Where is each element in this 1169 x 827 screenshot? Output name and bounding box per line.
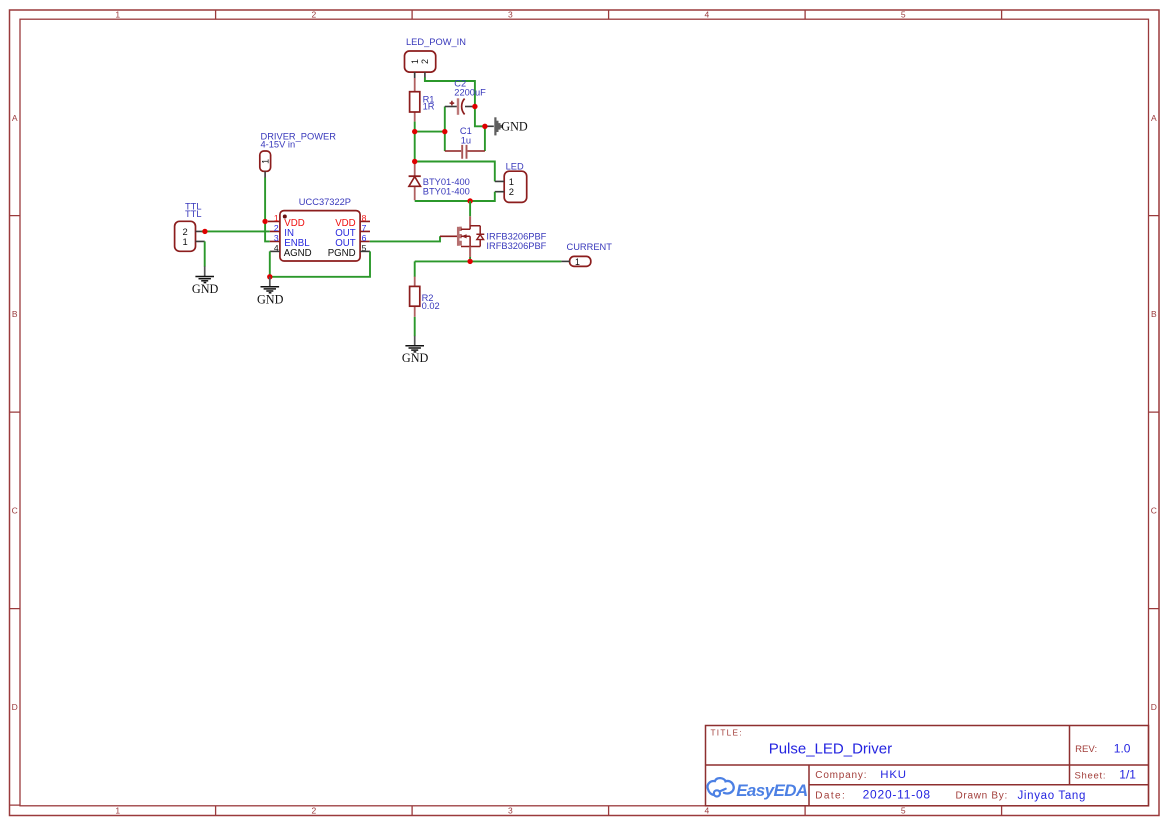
capacitor C1 1u (445, 126, 485, 159)
svg-text:LED_POW_IN: LED_POW_IN (406, 37, 466, 47)
ground GND flag right-pointing at C2 (485, 117, 528, 135)
node junction Q1 source (467, 259, 472, 264)
svg-text:GND: GND (192, 282, 219, 296)
svg-text:1.0: 1.0 (1114, 741, 1131, 755)
connector TTL (175, 201, 205, 251)
svg-text:Company:: Company: (815, 770, 867, 781)
connector CURRENT (561, 242, 612, 267)
svg-text:B: B (12, 309, 18, 319)
svg-text:2: 2 (312, 806, 317, 816)
svg-text:A: A (12, 113, 18, 123)
svg-text:1R: 1R (423, 102, 435, 112)
wire R1 node to C branch (415, 131, 445, 133)
svg-text:Date:: Date: (815, 790, 846, 801)
wire C2 left down to C1 left (444, 107, 446, 152)
wire current sense horizontal (415, 260, 562, 262)
node junction MOSFET drain net (467, 198, 472, 203)
wire DRIVER_POWER to U1 VDD and ENBL (265, 178, 270, 242)
svg-text:AGND: AGND (284, 248, 312, 259)
svg-text:7: 7 (362, 223, 367, 233)
transistor Q1 IRFB3206PBF (440, 216, 547, 257)
svg-text:2: 2 (312, 9, 317, 19)
connector DRIVER_POWER (260, 131, 336, 178)
wire TTL pin1 down (204, 241, 206, 266)
node junction R1/C2C1/diode (412, 129, 417, 134)
svg-text:5: 5 (901, 806, 906, 816)
ground GND under U1 (257, 277, 284, 307)
svg-text:IRFB3206PBF: IRFB3206PBF (486, 231, 546, 241)
svg-text:2: 2 (420, 59, 430, 64)
svg-text:C: C (1151, 505, 1157, 515)
ground GND under TTL (192, 266, 219, 296)
node junction AGND (267, 274, 272, 279)
wire R1 bottom to diode node (414, 122, 416, 164)
svg-text:2: 2 (509, 186, 514, 197)
svg-text:BTY01-400: BTY01-400 (423, 187, 470, 197)
svg-text:A: A (1151, 113, 1157, 123)
svg-text:UCC37322P: UCC37322P (299, 197, 351, 207)
node junction C2 right (472, 104, 477, 109)
svg-text:Drawn By:: Drawn By: (956, 790, 1008, 801)
svg-text:2: 2 (274, 223, 279, 233)
ground GND under R2 (402, 336, 429, 365)
svg-text:4: 4 (705, 806, 710, 816)
svg-text:1: 1 (260, 159, 270, 164)
svg-text:IRFB3206PBF: IRFB3206PBF (486, 241, 546, 251)
svg-text:PGND: PGND (328, 248, 356, 259)
wire down to R2 (414, 261, 416, 277)
svg-text:3: 3 (508, 9, 513, 19)
IC U1 UCC37322P gate driver (268, 197, 370, 261)
svg-text:Sheet:: Sheet: (1075, 771, 1107, 782)
svg-text:GND: GND (257, 292, 284, 306)
svg-text:C: C (12, 505, 18, 515)
wire C2 right to GND branch (475, 107, 485, 127)
svg-text:Pulse_LED_Driver: Pulse_LED_Driver (769, 741, 892, 758)
svg-text:3: 3 (274, 233, 279, 243)
connector J1 LED_POW_IN (405, 37, 466, 78)
svg-text:1: 1 (183, 236, 188, 247)
svg-text:Jinyao Tang: Jinyao Tang (1018, 790, 1087, 802)
svg-text:1: 1 (410, 59, 420, 64)
wire U1 AGND PGND loop (270, 251, 370, 276)
svg-text:1u: 1u (461, 136, 471, 146)
wire U1 OUT to Q1 gate (370, 236, 440, 241)
capacitor C2 2200uF polarized (445, 78, 486, 115)
svg-text:GND: GND (402, 351, 429, 365)
title block (706, 726, 1149, 806)
wire Q1 source to current net (469, 257, 471, 261)
svg-text:1: 1 (115, 9, 120, 19)
svg-text:2200uF: 2200uF (454, 87, 486, 97)
svg-text:EasyEDA: EasyEDA (736, 781, 808, 800)
svg-text:GND: GND (501, 120, 528, 134)
diode D1 BTY01-400 (409, 163, 470, 200)
svg-text:CURRENT: CURRENT (567, 242, 613, 252)
resistor R1 (410, 72, 435, 122)
node junction diode top (412, 159, 417, 164)
svg-text:4-15V in: 4-15V in (261, 140, 296, 150)
svg-text:2020-11-08: 2020-11-08 (863, 788, 931, 802)
svg-text:1: 1 (274, 213, 279, 223)
svg-text:TTL: TTL (185, 209, 202, 219)
svg-text:B: B (1151, 309, 1157, 319)
wire top loop diode to LED pin1 (415, 162, 495, 182)
svg-text:1/1: 1/1 (1119, 768, 1136, 782)
svg-text:1: 1 (575, 257, 580, 267)
node junction GND branch (482, 124, 487, 129)
wire drain (469, 201, 471, 216)
resistor R2 0.02 (410, 277, 440, 317)
connector LED (495, 162, 527, 203)
svg-text:0.02: 0.02 (422, 301, 440, 311)
svg-text:8: 8 (362, 213, 367, 223)
svg-text:4: 4 (274, 243, 279, 253)
svg-text:1: 1 (115, 806, 120, 816)
wire LED_POW_IN pin2 to C2 top (425, 77, 475, 106)
wire bottom loop LED pin2 to diode anode (415, 192, 495, 201)
wire R2 to GND (414, 317, 416, 336)
EasyEDA logo (708, 778, 808, 800)
svg-text:REV:: REV: (1075, 744, 1097, 755)
node junction C branch left (442, 129, 447, 134)
svg-text:5: 5 (901, 9, 906, 19)
svg-text:TITLE:: TITLE: (711, 728, 743, 737)
svg-text:4: 4 (705, 9, 710, 19)
node junction TTL pin2 (202, 229, 207, 234)
wire TTL pin2 to U1 IN (202, 230, 270, 232)
svg-text:D: D (1151, 702, 1157, 712)
node junction U1 VDD (262, 219, 267, 224)
svg-text:D: D (12, 702, 18, 712)
svg-text:5: 5 (362, 243, 367, 253)
svg-text:6: 6 (362, 233, 367, 243)
svg-text:C1: C1 (460, 126, 472, 136)
wire GND branch down to C1 right (484, 126, 486, 151)
svg-text:HKU: HKU (880, 769, 906, 781)
svg-text:LED: LED (506, 162, 524, 172)
svg-text:3: 3 (508, 806, 513, 816)
